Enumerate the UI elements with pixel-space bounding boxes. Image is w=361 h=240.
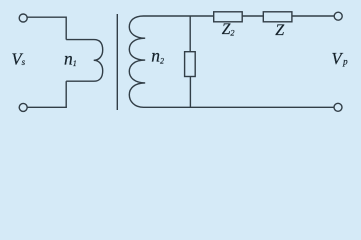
wire top-right segment a: [144, 15, 214, 17]
wire shunt branch upper: [189, 16, 191, 52]
terminal bottom-right: [334, 103, 342, 111]
wire bottom-right horizontal: [144, 106, 335, 108]
wire primary bottom lead vertical: [65, 81, 67, 107]
impedance Z: [263, 12, 292, 22]
inductor secondary winding n2: [129, 16, 145, 107]
wire primary top lead vertical: [65, 17, 67, 40]
wire bottom-left horizontal: [27, 106, 67, 108]
wire top-left horizontal: [27, 16, 66, 18]
wire between Z2 and Z: [242, 15, 263, 17]
impedance Z2: [214, 12, 243, 22]
terminal top-right: [334, 12, 342, 20]
transformer core: [116, 14, 118, 110]
terminal top-left: [19, 14, 27, 22]
inductor primary winding n1: [66, 40, 103, 82]
terminal bottom-left: [19, 103, 27, 111]
shunt impedance box: [185, 52, 196, 77]
svg-text:Z: Z: [275, 22, 285, 39]
wire shunt branch lower: [189, 77, 191, 108]
wire top-right segment b: [292, 15, 334, 17]
